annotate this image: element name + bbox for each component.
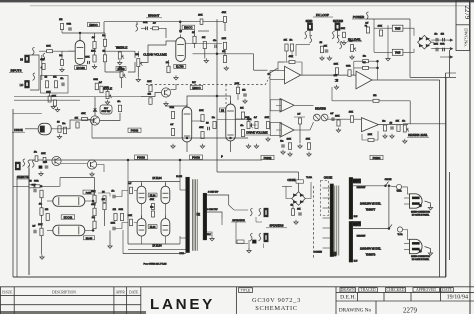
svg-text:470K: 470K — [85, 57, 90, 59]
svg-text:BLK: BLK — [207, 234, 211, 236]
svg-text:1M: 1M — [29, 180, 32, 182]
svg-text:47n: 47n — [213, 40, 216, 42]
svg-text:1M: 1M — [44, 76, 47, 78]
svg-text:19/10/94: 19/10/94 — [447, 295, 468, 301]
svg-text:NO GATE IN PANEL: NO GATE IN PANEL — [412, 213, 429, 216]
svg-text:CHECKED: CHECKED — [387, 288, 405, 292]
svg-text:22n: 22n — [62, 123, 65, 125]
svg-text:220K: 220K — [235, 83, 240, 85]
svg-text:REVERB LEVEL: REVERB LEVEL — [408, 133, 428, 137]
svg-text:POWER: POWER — [353, 15, 365, 19]
svg-text:REVERB: REVERB — [315, 107, 326, 111]
svg-text:TRACED: TRACED — [360, 288, 375, 292]
svg-text:7915: 7915 — [395, 51, 401, 54]
svg-text:BLUE: BLUE — [176, 176, 182, 178]
svg-text:P: P — [221, 155, 223, 159]
svg-text:INPUTS: INPUTS — [10, 69, 21, 73]
svg-text:47n: 47n — [117, 101, 120, 103]
svg-text:E83CC: E83CC — [89, 23, 97, 27]
svg-text:4n7: 4n7 — [153, 22, 156, 24]
svg-text:2K2: 2K2 — [373, 95, 376, 97]
svg-text:T1.6A: T1.6A — [397, 233, 403, 236]
svg-text:47n: 47n — [289, 40, 292, 42]
svg-text:470K: 470K — [199, 127, 204, 129]
svg-text:220K: 220K — [46, 92, 51, 94]
svg-text:BRIGHT: BRIGHT — [148, 14, 160, 18]
svg-text:22n: 22n — [212, 117, 215, 119]
svg-text:RLY: RLY — [104, 108, 109, 110]
svg-text:TITLE: TITLE — [241, 289, 251, 293]
svg-text:EL84: EL84 — [150, 194, 156, 197]
svg-text:1M: 1M — [319, 42, 322, 44]
svg-text:THN977: THN977 — [366, 208, 376, 212]
svg-text:47n: 47n — [34, 151, 37, 153]
svg-text:47n: 47n — [111, 190, 114, 192]
svg-text:CHOKE: CHOKE — [385, 179, 392, 181]
svg-text:680R: 680R — [440, 43, 445, 45]
svg-text:470K: 470K — [289, 56, 294, 58]
svg-text:MAINS CONNECTOR: MAINS CONNECTOR — [411, 255, 430, 258]
svg-text:1M: 1M — [57, 121, 60, 123]
svg-text:2K2: 2K2 — [148, 93, 151, 95]
svg-text:SCHEMATIC: SCHEMATIC — [255, 305, 298, 312]
svg-text:2279: 2279 — [463, 6, 470, 20]
svg-text:680R: 680R — [67, 23, 72, 25]
svg-text:220K: 220K — [334, 63, 339, 65]
svg-text:D.E.H.: D.E.H. — [340, 295, 356, 301]
svg-text:4n7: 4n7 — [330, 113, 333, 115]
svg-text:1M: 1M — [363, 62, 366, 64]
svg-text:22n: 22n — [150, 207, 153, 209]
svg-text:47n: 47n — [402, 121, 405, 123]
svg-text:2K2: 2K2 — [113, 209, 116, 211]
svg-text:100K: 100K — [335, 116, 340, 118]
svg-text:RLY: RLY — [192, 82, 196, 84]
svg-text:220/240V MODEL: 220/240V MODEL — [360, 246, 382, 250]
svg-text:E83CC: E83CC — [184, 26, 192, 30]
svg-text:EL733: EL733 — [176, 65, 184, 69]
svg-text:T2.5A: T2.5A — [306, 176, 312, 179]
svg-text:4n7: 4n7 — [254, 117, 257, 119]
svg-text:470K: 470K — [81, 113, 86, 115]
svg-text:100K: 100K — [198, 15, 203, 17]
svg-text:APPROVED: APPROVED — [416, 288, 436, 292]
svg-text:HI: HI — [20, 58, 23, 62]
svg-text:680R: 680R — [143, 22, 148, 24]
svg-text:1M: 1M — [389, 122, 392, 124]
svg-text:GC30V 9072_3: GC30V 9072_3 — [252, 297, 301, 304]
svg-text:100K: 100K — [199, 110, 204, 112]
svg-text:DATE: DATE — [442, 288, 452, 292]
svg-text:2K2: 2K2 — [334, 75, 337, 77]
svg-text:2K2: 2K2 — [59, 19, 62, 21]
svg-text:680R: 680R — [346, 65, 351, 67]
svg-text:DESCRIPTION: DESCRIPTION — [52, 291, 76, 295]
svg-text:P0002: P0002 — [264, 156, 272, 160]
svg-text:680R: 680R — [119, 209, 124, 211]
svg-text:220K: 220K — [111, 222, 116, 224]
svg-text:220K: 220K — [434, 43, 439, 45]
svg-text:22n: 22n — [363, 55, 366, 57]
svg-text:100K: 100K — [265, 117, 270, 119]
svg-text:22n: 22n — [382, 121, 385, 123]
svg-text:100/120V MODEL: 100/120V MODEL — [360, 201, 382, 205]
svg-text:2279: 2279 — [403, 306, 418, 314]
svg-text:MAINS CONNECTOR: MAINS CONNECTOR — [411, 211, 430, 214]
svg-text:4n7: 4n7 — [32, 225, 35, 227]
svg-text:100K: 100K — [378, 26, 383, 28]
svg-text:2K2: 2K2 — [45, 209, 48, 211]
svg-text:4n7: 4n7 — [170, 124, 173, 126]
svg-text:470K: 470K — [150, 199, 155, 201]
svg-text:220K: 220K — [147, 81, 152, 83]
svg-text:CLEAN VOLUME: CLEAN VOLUME — [143, 52, 167, 56]
svg-text:220K: 220K — [222, 38, 227, 40]
svg-text:680R: 680R — [245, 117, 250, 119]
svg-text:E83CC: E83CC — [192, 86, 200, 90]
svg-text:IMPEDANCE: IMPEDANCE — [232, 219, 245, 222]
svg-text:4n7: 4n7 — [297, 114, 300, 116]
svg-text:680R: 680R — [170, 107, 175, 109]
svg-text:THN973: THN973 — [366, 253, 376, 257]
svg-text:470K: 470K — [306, 138, 311, 140]
svg-text:100K: 100K — [287, 138, 292, 140]
svg-text:2K2: 2K2 — [44, 161, 47, 163]
svg-text:P0003: P0003 — [192, 156, 200, 160]
svg-text:470K: 470K — [349, 111, 354, 113]
svg-text:EL84S: EL84S — [86, 238, 93, 240]
svg-text:DRAWN: DRAWN — [341, 288, 355, 292]
svg-text:4n7: 4n7 — [365, 23, 368, 25]
svg-text:100K: 100K — [91, 191, 96, 193]
svg-text:8 OHM TAP: 8 OHM TAP — [207, 208, 218, 211]
svg-text:P0003: P0003 — [131, 129, 139, 133]
svg-text:DATE: DATE — [129, 291, 139, 295]
svg-text:FX LOOP: FX LOOP — [316, 13, 329, 17]
svg-text:4 OHM TAP: 4 OHM TAP — [208, 191, 219, 194]
svg-text:2X EL84: 2X EL84 — [152, 177, 162, 180]
svg-text:22n: 22n — [280, 140, 283, 142]
svg-text:22n: 22n — [349, 40, 352, 42]
svg-text:220K: 220K — [38, 224, 43, 226]
svg-text:DWG.No.: DWG.No. — [463, 28, 468, 47]
svg-text:100K: 100K — [91, 51, 96, 53]
svg-text:BLU: BLU — [354, 216, 358, 218]
svg-text:DRAWING No: DRAWING No — [339, 308, 372, 314]
svg-text:680R: 680R — [34, 180, 39, 182]
svg-text:LO: LO — [20, 83, 23, 87]
svg-text:470K: 470K — [222, 12, 227, 14]
svg-text:2X EL84: 2X EL84 — [152, 245, 162, 248]
svg-text:470K: 470K — [91, 204, 96, 206]
svg-text:470K: 470K — [341, 28, 346, 30]
svg-text:DRIVE: DRIVE — [14, 128, 23, 132]
svg-text:47n: 47n — [434, 34, 437, 36]
svg-text:T2.5A: T2.5A — [396, 190, 402, 193]
svg-text:1M: 1M — [206, 122, 209, 124]
svg-text:P0004: P0004 — [373, 156, 381, 160]
svg-text:2K2: 2K2 — [441, 34, 444, 36]
svg-text:47n: 47n — [119, 67, 122, 69]
svg-text:SCREEN: SCREEN — [314, 252, 323, 254]
svg-text:EL84: EL84 — [150, 226, 156, 229]
svg-text:LANEY: LANEY — [150, 296, 215, 313]
svg-text:CHOKE: CHOKE — [287, 180, 296, 182]
svg-text:SEND: SEND — [306, 20, 313, 23]
svg-text:ECC83: ECC83 — [76, 66, 85, 70]
svg-text:470K: 470K — [40, 59, 45, 61]
svg-text:RETURN: RETURN — [333, 20, 343, 23]
svg-text:APPR: APPR — [116, 291, 126, 295]
svg-text:ISSUE: ISSUE — [2, 291, 13, 295]
svg-text:220K: 220K — [41, 153, 46, 155]
svg-text:100K: 100K — [128, 215, 133, 217]
svg-text:RED/WHT: RED/WHT — [357, 187, 367, 189]
svg-text:2K2: 2K2 — [242, 89, 245, 91]
svg-text:7815: 7815 — [395, 27, 401, 30]
svg-text:4n7: 4n7 — [99, 82, 102, 84]
svg-text:NO GATE IN PANEL: NO GATE IN PANEL — [412, 258, 429, 261]
svg-text:SPEAKERS: SPEAKERS — [270, 223, 284, 227]
svg-text:RED/WHT: RED/WHT — [357, 236, 367, 238]
svg-text:Pres 30N02 MA-T 5.2M: Pres 30N02 MA-T 5.2M — [144, 262, 167, 265]
svg-text:STOP RLY: STOP RLY — [101, 111, 111, 113]
svg-text:CHOKE: CHOKE — [324, 177, 333, 180]
svg-text:4n7: 4n7 — [128, 183, 131, 185]
svg-text:220K: 220K — [104, 87, 109, 89]
svg-text:100K: 100K — [46, 45, 51, 47]
svg-text:ECC81: ECC81 — [64, 215, 73, 219]
svg-text:680R: 680R — [93, 79, 98, 81]
svg-text:REMOTE: REMOTE — [17, 175, 29, 179]
svg-text:47n: 47n — [240, 125, 243, 127]
svg-text:P0003: P0003 — [137, 156, 145, 160]
svg-text:47n: 47n — [60, 78, 63, 80]
svg-text:DRIVE VOLUME: DRIVE VOLUME — [246, 131, 267, 135]
svg-text:220K: 220K — [368, 134, 373, 136]
svg-text:BLU: BLU — [354, 261, 358, 263]
